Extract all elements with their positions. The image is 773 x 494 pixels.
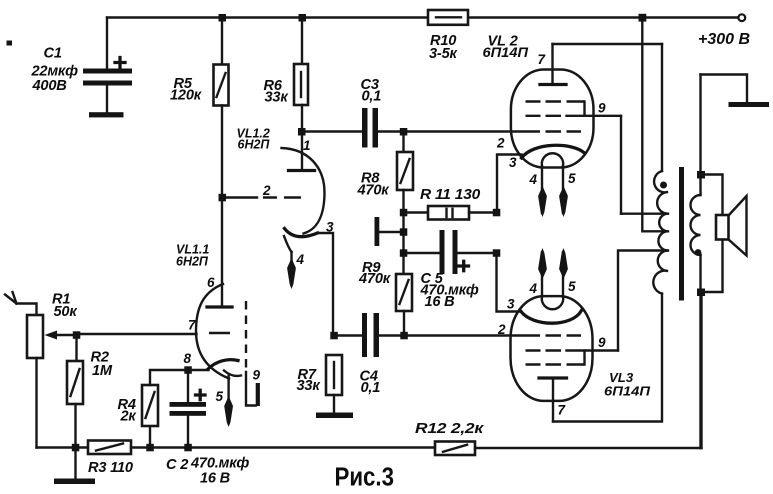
svg-text:9: 9 xyxy=(598,101,606,116)
svg-text:+300 В: +300 В xyxy=(698,31,750,48)
svg-text:R12 2,2к: R12 2,2к xyxy=(415,421,484,437)
svg-text:33к: 33к xyxy=(297,378,321,394)
svg-text:2: 2 xyxy=(497,322,506,337)
svg-text:6: 6 xyxy=(207,275,215,290)
svg-text:4: 4 xyxy=(296,252,305,267)
svg-text:0,1: 0,1 xyxy=(361,380,381,396)
svg-text:470к: 470к xyxy=(358,271,391,287)
svg-text:5: 5 xyxy=(216,389,224,404)
svg-text:4: 4 xyxy=(529,172,538,187)
svg-text:5: 5 xyxy=(568,279,576,294)
svg-text:470к: 470к xyxy=(357,183,390,199)
svg-text:2к: 2к xyxy=(120,409,137,425)
svg-text:6Н2П: 6Н2П xyxy=(238,138,271,152)
svg-text:33к: 33к xyxy=(265,90,289,106)
svg-text:6Н2П: 6Н2П xyxy=(176,255,209,269)
svg-text:470.мкф: 470.мкф xyxy=(190,456,249,472)
svg-text:50к: 50к xyxy=(54,304,78,320)
svg-text:3: 3 xyxy=(509,155,517,170)
svg-text:8: 8 xyxy=(184,351,192,366)
svg-text:2: 2 xyxy=(262,183,271,198)
svg-text:R 11 130: R 11 130 xyxy=(420,187,480,203)
svg-text:2: 2 xyxy=(496,136,505,151)
svg-text:400В: 400В xyxy=(32,78,67,94)
svg-text:3: 3 xyxy=(507,297,515,312)
svg-text:120к: 120к xyxy=(170,88,202,104)
svg-text:6П14П: 6П14П xyxy=(604,384,651,399)
svg-text:Рис.3: Рис.3 xyxy=(335,464,395,492)
svg-text:C1: C1 xyxy=(44,46,62,62)
svg-text:3-5к: 3-5к xyxy=(429,46,457,62)
svg-text:3: 3 xyxy=(326,220,334,235)
svg-text:1: 1 xyxy=(303,138,311,153)
svg-text:0,1: 0,1 xyxy=(362,89,382,105)
svg-text:9: 9 xyxy=(253,368,261,383)
svg-text:5: 5 xyxy=(568,171,576,186)
svg-text:R3 110: R3 110 xyxy=(88,460,133,476)
svg-text:9: 9 xyxy=(598,335,606,350)
svg-text:16 В: 16 В xyxy=(200,471,230,487)
svg-text:C 2: C 2 xyxy=(166,457,188,473)
svg-text:6П14П: 6П14П xyxy=(483,45,530,60)
svg-text:4: 4 xyxy=(529,281,538,296)
svg-text:16 В: 16 В xyxy=(425,294,455,310)
svg-text:1М: 1М xyxy=(92,363,113,379)
